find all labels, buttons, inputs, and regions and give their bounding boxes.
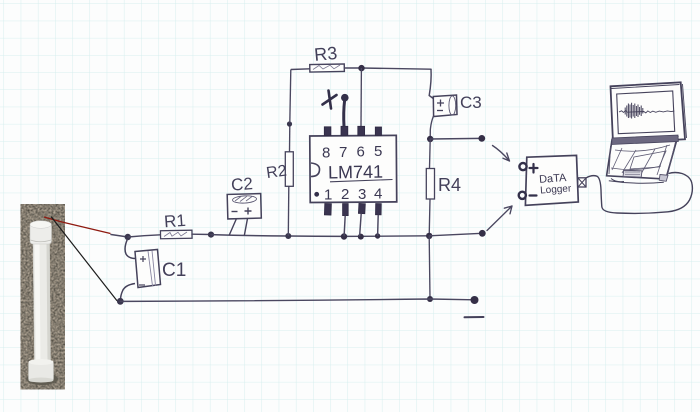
pin 2 [343, 204, 349, 216]
capacitor C3 [430, 93, 482, 139]
pin 4 [375, 204, 381, 215]
black sensor lead [51, 217, 117, 301]
wire: rail under IC pins [288, 235, 429, 238]
svg-text:R3: R3 [313, 43, 338, 65]
arrow to data logger + [493, 146, 510, 162]
junction dot pin3 node [358, 234, 364, 240]
wire: tap to output + [430, 137, 481, 140]
ground terminal dot [471, 296, 479, 304]
junction dot (pin6 branch) [358, 65, 364, 71]
svg-text:R1: R1 [163, 211, 186, 231]
wire: pin6 riser [360, 68, 362, 127]
output node + [478, 135, 485, 142]
wire: pin 4 to rail [377, 215, 380, 236]
capacitor C1 [121, 239, 187, 300]
svg-text:5: 5 [374, 143, 382, 160]
junction dot pin2 node [341, 233, 347, 239]
pin 5 [375, 127, 381, 135]
screen inner [617, 91, 675, 134]
wire: bottom rail [120, 299, 474, 301]
svg-text:R2: R2 [265, 162, 288, 182]
wire: node A to R1 [128, 235, 161, 237]
svg-text:3: 3 [358, 186, 366, 203]
wire: top rail left stub [111, 235, 128, 238]
wire: node B to R2 bottom node [211, 235, 288, 236]
svg-text:C1: C1 [162, 260, 186, 281]
junction dot bottom rail [427, 296, 433, 302]
pin 8 [324, 127, 331, 136]
op-amp U1 LM741 body [310, 135, 397, 203]
cable to laptop [586, 173, 692, 214]
svg-text:Logger: Logger [540, 183, 572, 196]
pin 3 [358, 203, 365, 213]
wire: right vertical to C3 [429, 69, 433, 98]
resistor R2 [265, 70, 293, 240]
wire: tap to output - [429, 233, 482, 236]
node B junction dot [208, 232, 214, 238]
photo of PVC tube sensor [21, 204, 66, 390]
resistor R4 [426, 139, 461, 236]
waveform [619, 111, 674, 113]
junction dot (V-out top) [427, 136, 433, 142]
wire: R4 node down to ground rail [428, 236, 431, 299]
wire: R3 to top-right corner [344, 68, 431, 69]
output node - [479, 230, 486, 237]
base [607, 137, 678, 179]
svg-text:6: 6 [357, 144, 365, 161]
laptop sketch [607, 82, 687, 183]
pin 7 [341, 126, 348, 135]
pin 6 [358, 126, 365, 135]
resistor R1 [160, 211, 192, 239]
junction dot (output - on rail) [426, 233, 432, 239]
wire: R1 to node B [192, 233, 211, 235]
wire: pin 2 to rail [344, 216, 345, 237]
svg-text:R4: R4 [438, 175, 461, 195]
svg-text:LM741: LM741 [328, 162, 383, 183]
svg-text:8: 8 [322, 145, 330, 162]
svg-text:C2: C2 [230, 174, 253, 194]
ground tick [465, 316, 484, 318]
red sensor lead [44, 217, 111, 234]
wire: pin 3 to rail [360, 214, 362, 237]
V+ supply symbol [323, 91, 349, 127]
node A (top-left junction) [125, 234, 131, 240]
svg-text:1: 1 [324, 187, 332, 204]
junction dot pin4 node [375, 233, 380, 238]
svg-text:4: 4 [374, 186, 382, 203]
pin 1 [324, 203, 331, 215]
svg-text:C3: C3 [460, 93, 482, 112]
arrow to data logger - [487, 206, 512, 231]
screen outer [611, 82, 686, 143]
svg-text:7: 7 [339, 144, 347, 161]
capacitor C2 [227, 174, 261, 235]
data logger box [519, 155, 579, 205]
connector plug [578, 178, 586, 187]
node (bottom-left) [117, 298, 124, 305]
resistor R3 [291, 43, 345, 72]
svg-text:2: 2 [341, 186, 349, 203]
